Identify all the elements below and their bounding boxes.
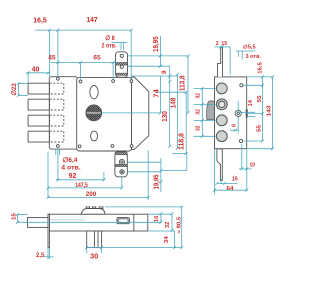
dim 74 [159,76,161,113]
O5,5 leader [236,50,256,52]
ext line screw col [57,30,59,77]
proj bolts to side [194,88,217,90]
knob foot [87,231,102,248]
dim 148 [176,74,178,148]
bolt 1 hidden [50,83,64,94]
screw hole chamfer top [130,80,133,83]
dim 2/15 top side [215,46,231,48]
lower housing knurl band 2 [115,164,127,167]
proj hole1 [128,55,188,57]
dim 6 [237,117,239,134]
screw hole cover top-left [79,80,82,83]
svg-text:2,5: 2,5 [36,252,45,259]
screw hole chamfer bottom [130,145,133,148]
dim O22 [17,83,19,95]
svg-text:2: 2 [216,41,219,47]
lower housing hole 1 [119,159,124,164]
svg-text:32: 32 [196,93,202,99]
proj lower housing [128,161,161,163]
dim 147,5 [48,187,122,189]
dim 30 / bottom long line [87,247,183,249]
bolt axis proj [17,221,161,223]
bottom oval hole [91,131,98,141]
dim 16,5/55/55 [262,77,264,141]
proj hole2 [128,65,170,67]
dim 30 ext stubs [86,248,88,254]
knurled knob [86,105,102,121]
lower housing knurl band 1 [115,152,127,155]
knob foot inner lines [93,231,95,248]
knob dome [81,209,105,215]
svg-text:16: 16 [154,216,160,223]
ext line hole147 [130,30,132,79]
svg-text:∅5,5: ∅5,5 [243,45,256,51]
svg-text:45: 45 [48,55,56,62]
screw hole bottom plate [57,145,60,148]
svg-text:32: 32 [196,125,202,131]
svg-text:200: 200 [86,191,97,198]
bolt 4 [28,131,49,142]
bar partition (cover edge) [133,214,135,231]
side screw hole top [240,84,243,87]
bolt 3 [28,115,49,126]
svg-text:2 отв.: 2 отв. [101,43,116,50]
dim 34 [174,231,176,248]
bolt 1 [28,83,49,94]
side bottom strip [217,149,222,181]
svg-text:55: 55 [257,95,263,102]
bottom bar [49,214,148,231]
dim 16 bottom view [160,214,162,222]
O6,4 leaders [55,149,57,155]
dim 15 bottom side [217,183,238,185]
dim 64 [215,189,247,191]
svg-text:16,5: 16,5 [33,18,47,25]
svg-text:32: 32 [165,222,171,229]
bolt 4 hidden [50,131,64,142]
top housing hole 2 [120,65,123,68]
svg-text:15: 15 [221,41,227,47]
bottom view dim 15 [16,214,18,222]
lower cylinder housing [115,152,127,177]
svg-text:6: 6 [231,124,237,127]
bolt 3 hidden [50,115,64,126]
dim 40 [26,72,50,74]
side bolt circle 2 (cylinder axis) [216,99,227,110]
side right edge block [246,109,248,117]
screw hole cover bottom-mid [111,145,114,148]
screw hole cover top-mid [112,80,115,83]
svg-text:9: 9 [161,70,168,74]
dim 10 [239,168,252,170]
dome screw bumps [86,207,89,209]
svg-text:4 отв.: 4 отв. [61,165,81,172]
svg-text:34: 34 [164,236,170,243]
side screw hole mid (donut) [235,110,241,116]
svg-text:130: 130 [162,111,169,122]
dim 200 [48,196,148,198]
top housing hole (O8) [120,54,123,57]
svg-text:32: 32 [196,109,202,115]
svg-text:118,8: 118,8 [178,133,185,150]
dim 32 bottom view [171,214,173,231]
dim 92 [56,179,105,181]
dim 19,95 bottom [160,158,162,192]
svg-text:148: 148 [170,98,177,109]
top housing knurl band 1 [116,62,127,65]
svg-text:40: 40 [32,67,40,74]
side body [215,77,247,149]
svg-text:147,5: 147,5 [75,182,88,189]
bottom bolt stub [28,218,50,228]
dim 16,5 / 147 top line [35,29,131,31]
back plate [49,77,77,149]
svg-text:16,5: 16,5 [258,62,264,74]
ext 45/65 [80,63,82,80]
side ext lines [248,76,274,78]
svg-text:∅6,4: ∅6,4 [63,157,79,164]
bolt 2 hidden [50,99,64,110]
O8 leader [112,41,128,43]
dim 143 [272,77,274,149]
svg-text:10: 10 [250,162,256,168]
knob proj [102,112,160,114]
svg-text:74: 74 [153,89,160,98]
handle slot [117,218,129,224]
dim 118,8 [185,92,187,153]
dim 32x3 [201,89,203,137]
top oval hole [90,86,98,99]
side screw hole bottom [239,139,242,142]
side left bracket [207,101,215,120]
dim 45/65 line [51,62,118,64]
svg-text:64: 64 [227,186,234,192]
top housing knurl band 2 [116,73,127,75]
svg-text:55: 55 [256,125,262,132]
svg-text:65: 65 [93,54,101,61]
side top strip [218,47,223,77]
svg-text:14: 14 [248,100,254,107]
dim 19,95 top [159,36,161,66]
lower housing hole 2 (O8) [120,170,124,174]
top body ext [132,75,178,77]
svg-text:30: 30 [90,254,98,261]
svg-text:∅22: ∅22 [11,83,18,96]
dim 2,5 [47,248,49,259]
svg-text:113,8: 113,8 [179,75,186,91]
side bolt circle 4 [216,131,227,142]
svg-text:3 отв.: 3 отв. [246,54,262,60]
top cylinder housing [116,52,128,77]
side bolt circle 1 [216,83,227,94]
svg-text:≈ 80,5: ≈ 80,5 [176,217,182,234]
svg-text:147: 147 [86,17,97,24]
side bolt circle 3 [216,115,227,126]
screw hole cover bottom-left [78,145,81,148]
chamfer mounting plate [132,77,149,149]
dim 14 [238,111,255,113]
dim 80,5 [181,207,183,248]
svg-text:∅ 8: ∅ 8 [105,35,115,42]
dim 9 / 130 line [169,66,171,146]
svg-text:143: 143 [267,105,273,116]
svg-text:19,95: 19,95 [154,175,161,190]
svg-text:15: 15 [12,213,18,220]
svg-text:19,95: 19,95 [153,36,160,52]
cover plate [77,77,132,151]
screw hole top plate [57,77,60,80]
svg-text:92: 92 [69,173,77,180]
dim 113,8 [187,56,189,113]
bolt 2 [28,99,49,110]
ext line plate corner [48,30,50,76]
faceplate strip [48,214,49,248]
svg-text:15: 15 [232,176,238,182]
bar inner faint line [50,219,85,221]
